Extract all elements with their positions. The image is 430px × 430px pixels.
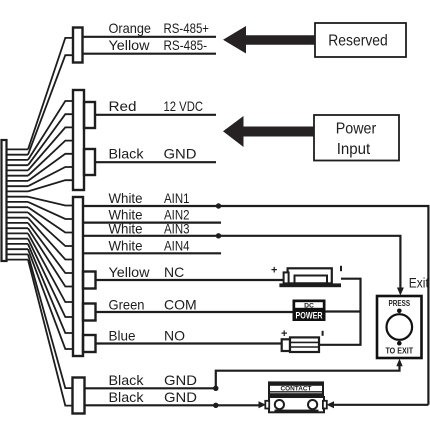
svg-text:+: + xyxy=(271,265,277,277)
svg-text:Black: Black xyxy=(109,146,145,162)
svg-text:AIN1: AIN1 xyxy=(164,190,190,206)
svg-text:NC: NC xyxy=(164,264,184,280)
svg-text:Black: Black xyxy=(109,372,145,388)
svg-text:Reserved: Reserved xyxy=(328,33,388,50)
svg-text:RS-485+: RS-485+ xyxy=(164,20,210,36)
svg-text:Orange: Orange xyxy=(109,20,152,36)
svg-text:White: White xyxy=(109,221,143,237)
svg-text:COM: COM xyxy=(164,297,197,313)
svg-text:AIN4: AIN4 xyxy=(164,238,190,254)
svg-text:NO: NO xyxy=(164,328,185,344)
svg-text:TO EXIT: TO EXIT xyxy=(385,346,413,356)
svg-text:Yellow: Yellow xyxy=(109,37,151,53)
svg-text:+: + xyxy=(281,328,287,340)
svg-text:PRESS: PRESS xyxy=(389,298,411,308)
svg-text:POWER: POWER xyxy=(296,311,323,322)
svg-text:Power: Power xyxy=(336,121,377,138)
svg-text:RS-485-: RS-485- xyxy=(164,37,208,53)
svg-text:GND: GND xyxy=(164,372,197,388)
svg-text:AIN3: AIN3 xyxy=(164,221,190,237)
svg-text:Green: Green xyxy=(109,297,145,313)
svg-text:White: White xyxy=(109,190,143,206)
svg-text:Blue: Blue xyxy=(109,328,136,344)
svg-text:Red: Red xyxy=(109,98,137,114)
svg-text:GND: GND xyxy=(164,146,197,162)
svg-text:GND: GND xyxy=(164,389,197,405)
svg-text:CONTACT: CONTACT xyxy=(281,385,313,392)
svg-text:Exit: Exit xyxy=(409,276,429,291)
svg-text:DC: DC xyxy=(304,303,314,310)
svg-text:Yellow: Yellow xyxy=(109,264,151,280)
svg-text:Black: Black xyxy=(109,389,145,405)
svg-text:Input: Input xyxy=(337,141,371,158)
svg-text:White: White xyxy=(109,238,143,254)
svg-text:12 VDC: 12 VDC xyxy=(164,98,204,114)
